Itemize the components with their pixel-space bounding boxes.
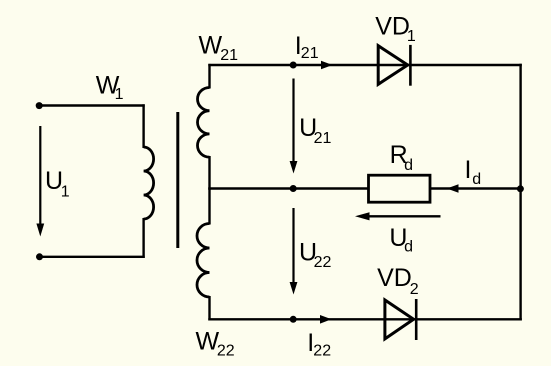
label U1	[45, 167, 70, 201]
node bottom junction	[290, 316, 297, 323]
svg-text:VD: VD	[377, 264, 412, 292]
node primary bottom terminal	[36, 253, 43, 260]
svg-text:22: 22	[314, 254, 332, 271]
label W1	[96, 71, 124, 103]
wire right rail	[519, 64, 521, 321]
svg-text:1: 1	[115, 86, 124, 103]
svg-text:22: 22	[313, 342, 331, 359]
svg-text:d: d	[472, 171, 481, 188]
wire middle left	[208, 187, 370, 189]
resistor Rd	[369, 175, 431, 202]
label U22	[299, 239, 331, 272]
arrow U21 voltage	[290, 79, 298, 174]
label I21	[295, 32, 319, 62]
wire top rail	[208, 64, 522, 66]
arrow I22 current	[320, 315, 332, 324]
wire primary top	[39, 104, 145, 106]
svg-text:1: 1	[61, 184, 70, 201]
svg-text:I: I	[465, 156, 472, 184]
label VD1	[375, 12, 416, 45]
svg-text:d: d	[404, 239, 413, 256]
inductor primary winding W1 coil	[144, 147, 154, 219]
svg-text:2: 2	[410, 281, 419, 298]
transformer core	[176, 112, 179, 248]
label U21	[299, 114, 331, 147]
arrow I21 current	[321, 61, 333, 70]
label I22	[307, 329, 331, 359]
wire secondary middle upper	[208, 156, 210, 190]
diode VD1	[378, 45, 410, 86]
arrow U1 voltage	[36, 126, 44, 237]
label Id	[465, 156, 482, 188]
wire primary right upper	[142, 104, 144, 148]
node right junction	[517, 185, 524, 192]
arrow Ud voltage	[355, 212, 441, 220]
node primary top terminal	[36, 102, 43, 109]
wire secondary bottom stub	[208, 296, 210, 321]
svg-text:VD: VD	[375, 12, 410, 40]
svg-text:22: 22	[217, 342, 235, 359]
label Ud	[389, 224, 413, 256]
inductor secondary winding W22 coil	[197, 224, 210, 298]
arrow U22 voltage	[290, 208, 298, 295]
wire primary bottom	[40, 256, 145, 258]
svg-text:21: 21	[220, 47, 238, 64]
label VD2	[377, 264, 419, 298]
svg-text:W: W	[199, 31, 223, 59]
diode VD2	[385, 299, 416, 340]
node middle junction	[290, 185, 297, 192]
wire middle right	[429, 187, 521, 189]
wire bottom rail	[208, 318, 522, 320]
wire secondary middle lower	[208, 188, 210, 225]
wire secondary top stub	[208, 64, 210, 89]
svg-text:W: W	[196, 327, 220, 355]
inductor secondary winding W21 coil	[197, 88, 209, 158]
label Rd	[390, 141, 413, 174]
label W21	[199, 31, 239, 64]
wire primary right lower	[142, 218, 144, 258]
svg-text:1: 1	[407, 28, 416, 45]
node top junction	[290, 62, 297, 69]
arrow Id current	[447, 184, 459, 193]
label W22	[196, 327, 235, 359]
svg-text:21: 21	[314, 130, 332, 147]
svg-text:21: 21	[301, 45, 319, 62]
svg-text:d: d	[404, 157, 413, 174]
